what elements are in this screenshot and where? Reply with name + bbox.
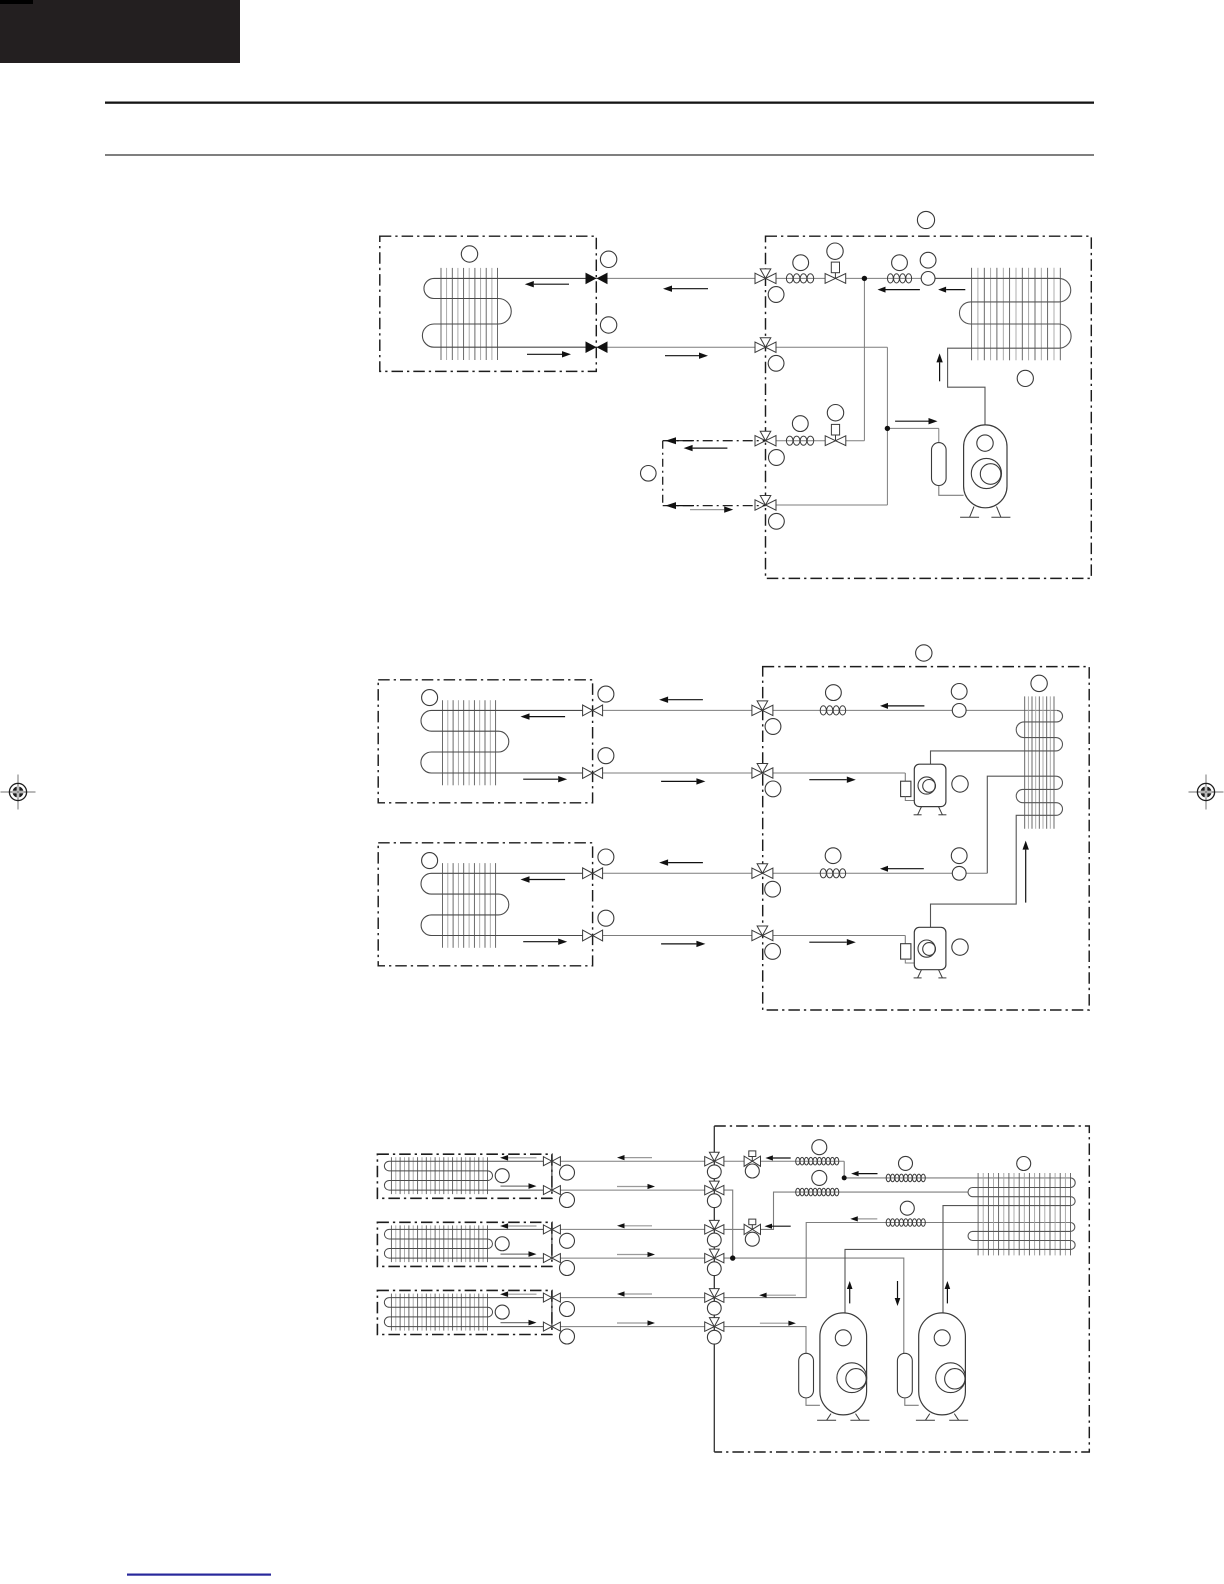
flow arrow indoor unit 6 upper — [508, 1293, 536, 1295]
flow arrow indoor unit 5 lower — [501, 1253, 529, 1255]
strainer S3 — [786, 436, 793, 445]
flow arrow condenser up — [939, 362, 941, 381]
wire: suction line compressor 2-2 — [762, 935, 905, 937]
wire: outdoor1 vertical from EEV junction — [863, 278, 865, 440]
flow arrow pipe B indoor unit 6 — [617, 1322, 648, 1324]
compressor compressor 2-1 legs — [918, 807, 922, 815]
flow arrow indoor1 upper — [534, 283, 569, 285]
flow arrow stub lower gray — [690, 509, 724, 511]
callout circle sensor A3 — [951, 848, 967, 864]
callout circle indoor unit 6 valve A — [560, 1302, 575, 1317]
callout circle V3 — [707, 1233, 721, 1247]
service valve SV3 — [760, 431, 771, 441]
outdoor1 condenser tube and discharge pipe — [935, 278, 1071, 425]
callout circle outdoor2 coil — [1031, 675, 1047, 691]
callout circle indoor1 — [461, 246, 477, 262]
compressor D2 — [919, 1313, 966, 1415]
flare valve indoor unit 3 liquid — [583, 930, 593, 941]
callout circle strainer A2 — [826, 685, 842, 701]
callout circle stub — [641, 466, 657, 482]
callout circle valve A2 — [765, 719, 781, 735]
callout circle EEV1 — [827, 243, 843, 259]
flare valve indoor unit 6 B — [543, 1322, 552, 1331]
compressor D1 legs — [827, 1414, 831, 1421]
wire: line A indoor unit 5 — [552, 1228, 714, 1230]
callout circle strainer A3 — [825, 848, 841, 864]
callout circle V1 — [707, 1165, 721, 1179]
flow arrow liquid pipe indoor unit 2 — [661, 780, 696, 782]
flow arrow liquid pipe indoor unit 3 — [661, 943, 696, 945]
callout circle SV3 — [769, 450, 785, 466]
sensor circle compressor 2-2 — [952, 939, 968, 955]
flow arrow liquid pipe — [665, 355, 699, 357]
flow arrow A2 — [888, 705, 924, 707]
flow arrow indoor unit 2 lower — [523, 778, 558, 780]
flow arrow pipe A indoor unit 5 — [625, 1225, 653, 1227]
flow arrow indoor1 lower — [527, 353, 562, 355]
callout circle valve liquid — [600, 317, 616, 333]
electronic expansion valve EEV1 — [825, 274, 835, 284]
indoor unit 5 fins — [390, 1225, 392, 1262]
wire: V5 line riser to coil row2 — [714, 1223, 1070, 1298]
callout circle S2 — [892, 255, 908, 271]
indoor unit 6 boundary — [377, 1290, 552, 1334]
outdoor3 condenser top section to compressor D2 — [943, 1178, 1075, 1313]
outdoor unit 2 boundary — [763, 667, 1089, 1010]
flow arrow stub upper — [693, 447, 728, 449]
wire: outdoor2 line A3 — [762, 872, 987, 874]
outdoor2 coil fins — [1024, 696, 1026, 828]
callout circle indoor unit 2 gas valve — [598, 686, 614, 702]
flow arrow gas pipe indoor unit 3 — [668, 862, 703, 864]
wire: suction line B right — [766, 346, 888, 348]
service valve SV1 — [760, 269, 771, 279]
indoor unit 2 heat exchanger tube — [421, 710, 593, 773]
outdoor2 coil top section and compressor1 discharge — [931, 710, 1063, 764]
strainer S2 — [887, 274, 893, 283]
indoor unit 1 boundary — [380, 236, 597, 371]
flow arrow pipe A indoor unit 4 — [625, 1157, 653, 1159]
indoor unit 4 coil tube — [384, 1161, 552, 1190]
flare valve indoor unit 3 gas — [583, 868, 593, 879]
flow arrow pipe B indoor unit 5 — [617, 1254, 648, 1256]
flow arrow V5 line — [767, 1294, 796, 1296]
strainer S1 — [786, 274, 793, 283]
service valve SV2 — [760, 338, 771, 348]
indoor unit 2 heat exchanger fins — [442, 700, 444, 785]
indoor unit 5 coil tube — [384, 1229, 551, 1258]
muffler compressor 2-2 — [901, 944, 911, 959]
flare valve indoor unit 2 liquid — [583, 768, 593, 779]
wire: row1 feed to condenser — [844, 1161, 1070, 1178]
indoor1 heat exchanger fins — [440, 268, 442, 360]
compressor outdoor1 — [964, 425, 1007, 508]
flow arrow outdoor2 coil up — [1025, 850, 1027, 903]
indoor unit 4 fins — [390, 1157, 392, 1194]
callout circle strainer D3-1 — [812, 1140, 827, 1155]
indoor unit 6 valve edge line — [551, 1298, 553, 1327]
strainer D3-4 — [886, 1219, 890, 1227]
indoor unit 3 heat exchanger tube — [421, 873, 593, 935]
flow arrow indoor unit 6 lower — [501, 1322, 529, 1324]
callout circle indoor unit 4 — [495, 1169, 509, 1183]
wire: suction line compressor 2-1 — [762, 772, 905, 774]
callout circle SV1 — [768, 287, 784, 303]
callout circle outdoor1 — [917, 211, 934, 228]
flow arrow discharge D2 up — [946, 1289, 948, 1303]
flow arrow indoor unit 2 upper — [530, 716, 566, 718]
flow arrow indoor unit 5 upper — [508, 1225, 536, 1227]
muffler compressor 2-1 — [901, 781, 911, 796]
callout circle valve B2 — [765, 781, 781, 797]
flow arrow line A left outer — [946, 289, 965, 291]
stub arrowhead lower — [665, 502, 676, 509]
callout circle valve A3 — [765, 881, 781, 897]
flow arrow row2 — [858, 1218, 878, 1220]
flare valve indoor unit 5 B — [543, 1254, 552, 1263]
flare valve indoor unit 6 A — [543, 1293, 552, 1302]
outdoor2 coil bottom section and compressor2 discharge — [931, 776, 1063, 927]
indoor unit 4 boundary — [377, 1154, 552, 1198]
footer link rule — [127, 1574, 271, 1576]
callout circle V2 — [707, 1194, 721, 1208]
service valve SV4 — [760, 496, 771, 506]
indoor unit 3 boundary — [378, 843, 592, 966]
electronic expansion valve EEV3-2 — [744, 1224, 752, 1234]
flow arrow gas pipe indoor unit 2 — [668, 699, 703, 701]
callout circle indoor unit 6 valve B — [560, 1329, 575, 1344]
electronic expansion valve EEV3-1 — [744, 1156, 752, 1166]
outdoor unit 1 boundary — [766, 236, 1092, 578]
flare valve indoor unit 2 gas — [583, 705, 593, 716]
callout circle indoor unit 4 valve A — [560, 1165, 575, 1180]
wire: V4 suction to compressor D2 — [714, 1258, 904, 1353]
header rule thin — [105, 154, 1094, 155]
page header block — [0, 0, 240, 63]
sensor bulb A3 — [952, 866, 966, 880]
strainer D3-1 — [796, 1157, 800, 1165]
flow arrow indoor unit 3 upper — [530, 879, 566, 881]
callout circle SV4 — [769, 513, 785, 529]
callout circle valve B3 — [765, 944, 781, 960]
junction dot suction — [885, 426, 890, 431]
wire: V3 line to EEV2 and riser — [714, 1192, 968, 1229]
wire: liquid line indoor1 to outdoor1 — [597, 346, 766, 348]
flow arrow suction 2-2 — [809, 941, 847, 943]
registration mark — [1, 775, 36, 810]
junction dot line A — [862, 276, 867, 281]
flow arrow discharge D1 up — [849, 1289, 851, 1303]
indoor unit 6 fins — [390, 1294, 392, 1331]
callout circle EEV2 — [827, 405, 843, 421]
branch stub lower dash line — [663, 505, 766, 507]
wire: line B indoor unit 4 — [552, 1189, 714, 1191]
manifold valve V2 — [709, 1181, 719, 1190]
callout circle indoor unit 3 liquid valve — [598, 910, 614, 926]
callout circle indoor unit 3 gas valve — [598, 849, 614, 865]
flow arrow to accumulator — [895, 420, 928, 422]
header rule thick — [105, 102, 1094, 104]
flow arrow suction D2 down — [897, 1281, 899, 1298]
flow arrow line A left inner — [886, 289, 920, 291]
flow arrow gas pipe — [672, 288, 708, 290]
callout circle V5 — [707, 1301, 721, 1315]
flow arrow pipe A indoor unit 6 — [625, 1293, 653, 1295]
flow arrow pipe B indoor unit 4 — [617, 1186, 648, 1188]
sensor bulb on line A — [921, 272, 935, 286]
flow arrow after EEV3-2 — [772, 1225, 791, 1227]
service valve B2 — [757, 764, 768, 774]
manifold valve V3 — [709, 1220, 719, 1229]
manifold valve V1 — [709, 1152, 719, 1161]
sensor circle compressor 2-1 — [952, 776, 968, 792]
stub arrowhead upper — [665, 437, 676, 444]
electronic expansion valve EEV2 — [825, 436, 835, 446]
strainer A3 — [820, 869, 826, 878]
outdoor3 condenser bottom section to compressor D1 — [845, 1223, 1075, 1313]
callout circle strainer D3-4 — [900, 1201, 914, 1215]
indoor unit 3 heat exchanger fins — [442, 863, 444, 948]
callout circle S1 — [793, 255, 809, 271]
flow arrow row1 — [859, 1173, 878, 1175]
callout circle strainer D3-3 — [812, 1170, 827, 1185]
flow arrow A3 — [888, 868, 924, 870]
callout circle indoor unit 2 liquid valve — [598, 748, 614, 764]
callout circle indoor unit 5 — [495, 1237, 509, 1251]
branch stub upper dash line — [663, 440, 766, 442]
flare valve indoor unit 5 A — [543, 1225, 552, 1234]
branch stub vertical dash line — [662, 441, 664, 506]
callout circle SV2 — [768, 355, 784, 371]
outdoor3 valve column line — [713, 1126, 715, 1452]
wire: V6 suction to compressor D1 — [714, 1327, 806, 1354]
strainer A2 — [820, 706, 826, 715]
flow arrow suction 2-1 — [809, 779, 847, 781]
manifold valve V6 — [709, 1318, 719, 1327]
outdoor unit 3 boundary — [714, 1126, 1089, 1452]
strainer D3-3 — [796, 1188, 800, 1196]
callout circle sensor A2 — [951, 684, 967, 700]
indoor unit 2 boundary — [378, 680, 592, 803]
registration mark — [1189, 775, 1224, 810]
wire: gas line indoor unit 3 — [593, 872, 763, 874]
wire: liquid line indoor unit 3 — [593, 935, 763, 937]
indoor unit 5 boundary — [377, 1222, 552, 1266]
wire: accumulator to compressor — [939, 484, 964, 495]
shutoff valve indoor1 liquid — [586, 341, 597, 353]
wire: V1 line through EEV1 — [714, 1160, 844, 1162]
flare valve indoor unit 4 B — [543, 1186, 552, 1195]
callout circle valve gas — [600, 251, 616, 267]
service valve A2 — [757, 701, 768, 711]
flow arrow indoor unit 4 upper — [508, 1157, 536, 1159]
compressor legs — [970, 507, 974, 518]
manifold valve V5 — [709, 1289, 719, 1298]
outdoor3 condenser fins — [977, 1173, 979, 1255]
callout circle outdoor3 condenser — [1017, 1157, 1031, 1171]
indoor unit 4 valve edge line — [551, 1161, 553, 1190]
callout circle indoor unit 2 — [422, 690, 438, 706]
flow arrow indoor unit 4 lower — [501, 1185, 529, 1187]
wire: outdoor1 line A — [766, 277, 1060, 279]
wire: line B indoor unit 5 — [552, 1257, 714, 1259]
callout circle strainer D3-2 — [899, 1156, 913, 1170]
service valve B3 — [757, 926, 768, 936]
wire: V2 branch down — [714, 1190, 732, 1258]
callout circle V6 — [707, 1330, 721, 1344]
callout circle indoor unit 3 — [422, 853, 438, 869]
wire: outdoor1 line C valve3 to EEV2 — [766, 440, 865, 442]
callout circle indoor unit 5 valve B — [560, 1261, 575, 1276]
callout circle indoor unit 6 — [495, 1305, 509, 1319]
wire: junction to accumulator — [887, 427, 938, 429]
callout circle condenser — [1017, 370, 1033, 386]
compressor compressor 2-2 — [914, 927, 946, 969]
accumulator outdoor1 — [932, 443, 947, 486]
callout circle indoor unit 5 valve A — [560, 1233, 575, 1248]
service valve A3 — [757, 864, 768, 874]
outdoor1 condenser coil fins — [971, 268, 973, 361]
compressor D2 legs — [925, 1414, 929, 1421]
callout circle outdoor2 — [916, 645, 932, 661]
wire: outdoor2 line A2 — [762, 709, 1056, 711]
flow arrow indoor unit 3 lower — [523, 941, 558, 943]
wire: line A indoor unit 4 — [552, 1160, 714, 1162]
manifold valve V4 — [709, 1249, 719, 1258]
callout circle V4 — [707, 1262, 721, 1276]
flow arrow after EEV3-1 — [773, 1157, 791, 1159]
callout circle EEV3-1 — [745, 1164, 759, 1178]
junction dot V4 — [730, 1255, 735, 1260]
callout circle sensor top — [920, 252, 936, 268]
shutoff valve indoor1 gas — [586, 273, 597, 285]
sensor bulb A2 — [952, 704, 966, 718]
callout circle S3 — [792, 416, 808, 432]
wire: line A indoor unit 6 — [552, 1297, 714, 1299]
callout circle indoor unit 4 valve B — [560, 1193, 575, 1208]
wire: line B indoor unit 6 — [552, 1326, 714, 1328]
strainer D3-2 — [886, 1174, 890, 1182]
indoor unit 6 coil tube — [384, 1298, 552, 1327]
flare valve indoor unit 4 A — [543, 1157, 552, 1166]
wire: valve4 line — [766, 504, 888, 506]
accumulator D2 — [897, 1353, 912, 1398]
compressor compressor 2-2 legs — [918, 970, 922, 978]
flow arrow V6 suction — [760, 1322, 789, 1324]
accumulator D1 — [799, 1353, 814, 1398]
compressor D1 — [820, 1313, 867, 1415]
wire: gas line indoor1 to outdoor1 — [597, 277, 766, 279]
callout circle EEV3-2 — [745, 1232, 759, 1246]
wire: gas line indoor unit 2 — [593, 709, 763, 711]
wire: suction vertical — [886, 347, 888, 505]
wire: liquid line indoor unit 2 — [593, 772, 763, 774]
indoor unit 5 valve edge line — [551, 1229, 553, 1258]
junction dot row1 — [842, 1175, 847, 1180]
indoor1 heat exchanger tube — [422, 278, 596, 347]
compressor compressor 2-1 — [914, 764, 946, 806]
